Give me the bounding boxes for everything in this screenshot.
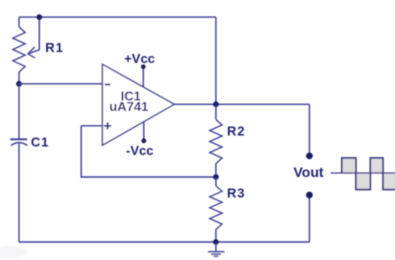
resistor R2 xyxy=(210,120,222,164)
node: R2/R3 junction xyxy=(213,174,219,180)
square wave trace xyxy=(342,158,395,190)
svg-text:R3: R3 xyxy=(227,186,245,201)
faint scan smudge bottom-left (background artifact) xyxy=(0,246,27,258)
R1 wiper arrow xyxy=(28,17,39,58)
wire: left rail from C1 to bottom rail xyxy=(18,144,20,242)
wire: left rail top lead into R1 xyxy=(18,17,20,27)
Vout lower terminal xyxy=(306,192,313,199)
op-amp inverting marker xyxy=(105,84,110,86)
ground xyxy=(208,242,225,256)
+Vcc pin xyxy=(142,67,144,87)
capacitor C1 xyxy=(10,139,27,145)
svg-text:Vout: Vout xyxy=(294,164,324,180)
-Vcc pin xyxy=(143,122,145,141)
wire: output run xyxy=(174,103,309,105)
wire: inverting input xyxy=(19,83,102,85)
resistor R3 xyxy=(210,186,222,230)
wire: right column from top rail to output node xyxy=(215,17,217,104)
wire: drop from output run to Vout upper terminal xyxy=(308,104,310,156)
svg-text:+Vcc: +Vcc xyxy=(124,51,155,66)
wire: R2 top lead xyxy=(215,104,217,119)
op-amp IC1 triangle xyxy=(102,64,174,145)
wire: R2 bottom lead xyxy=(215,164,217,178)
wire: left rail from node to C1 top plate xyxy=(18,84,20,140)
node: inverting input / R1 / C1 junction xyxy=(16,81,22,87)
svg-text:uA741: uA741 xyxy=(109,99,148,114)
square wave fill xyxy=(342,158,395,190)
square wave axis xyxy=(331,172,395,174)
wire: bottom rail xyxy=(19,241,309,243)
node: output junction xyxy=(213,101,219,107)
op-amp non-inverting marker xyxy=(104,122,111,129)
svg-text:-Vcc: -Vcc xyxy=(126,143,153,158)
wire: feedback from non-inverting input down to R2/R3 node xyxy=(81,126,216,177)
junction: R1 wiper on top rail xyxy=(37,14,43,20)
node: ground junction on bottom rail xyxy=(213,239,219,245)
wire: right riser from bottom rail to Vout lower terminal xyxy=(308,195,310,242)
svg-text:R2: R2 xyxy=(227,124,245,139)
resistor R1 xyxy=(13,27,25,72)
svg-text:C1: C1 xyxy=(31,134,49,149)
wire: R3 bottom lead xyxy=(215,230,217,243)
svg-text:R1: R1 xyxy=(45,40,63,55)
wire: non-inverting input xyxy=(81,125,102,127)
wire: top rail xyxy=(19,16,216,18)
Vout upper terminal xyxy=(306,153,313,160)
wire: R3 top lead xyxy=(215,177,217,186)
wire: R1 bottom lead xyxy=(18,72,20,84)
